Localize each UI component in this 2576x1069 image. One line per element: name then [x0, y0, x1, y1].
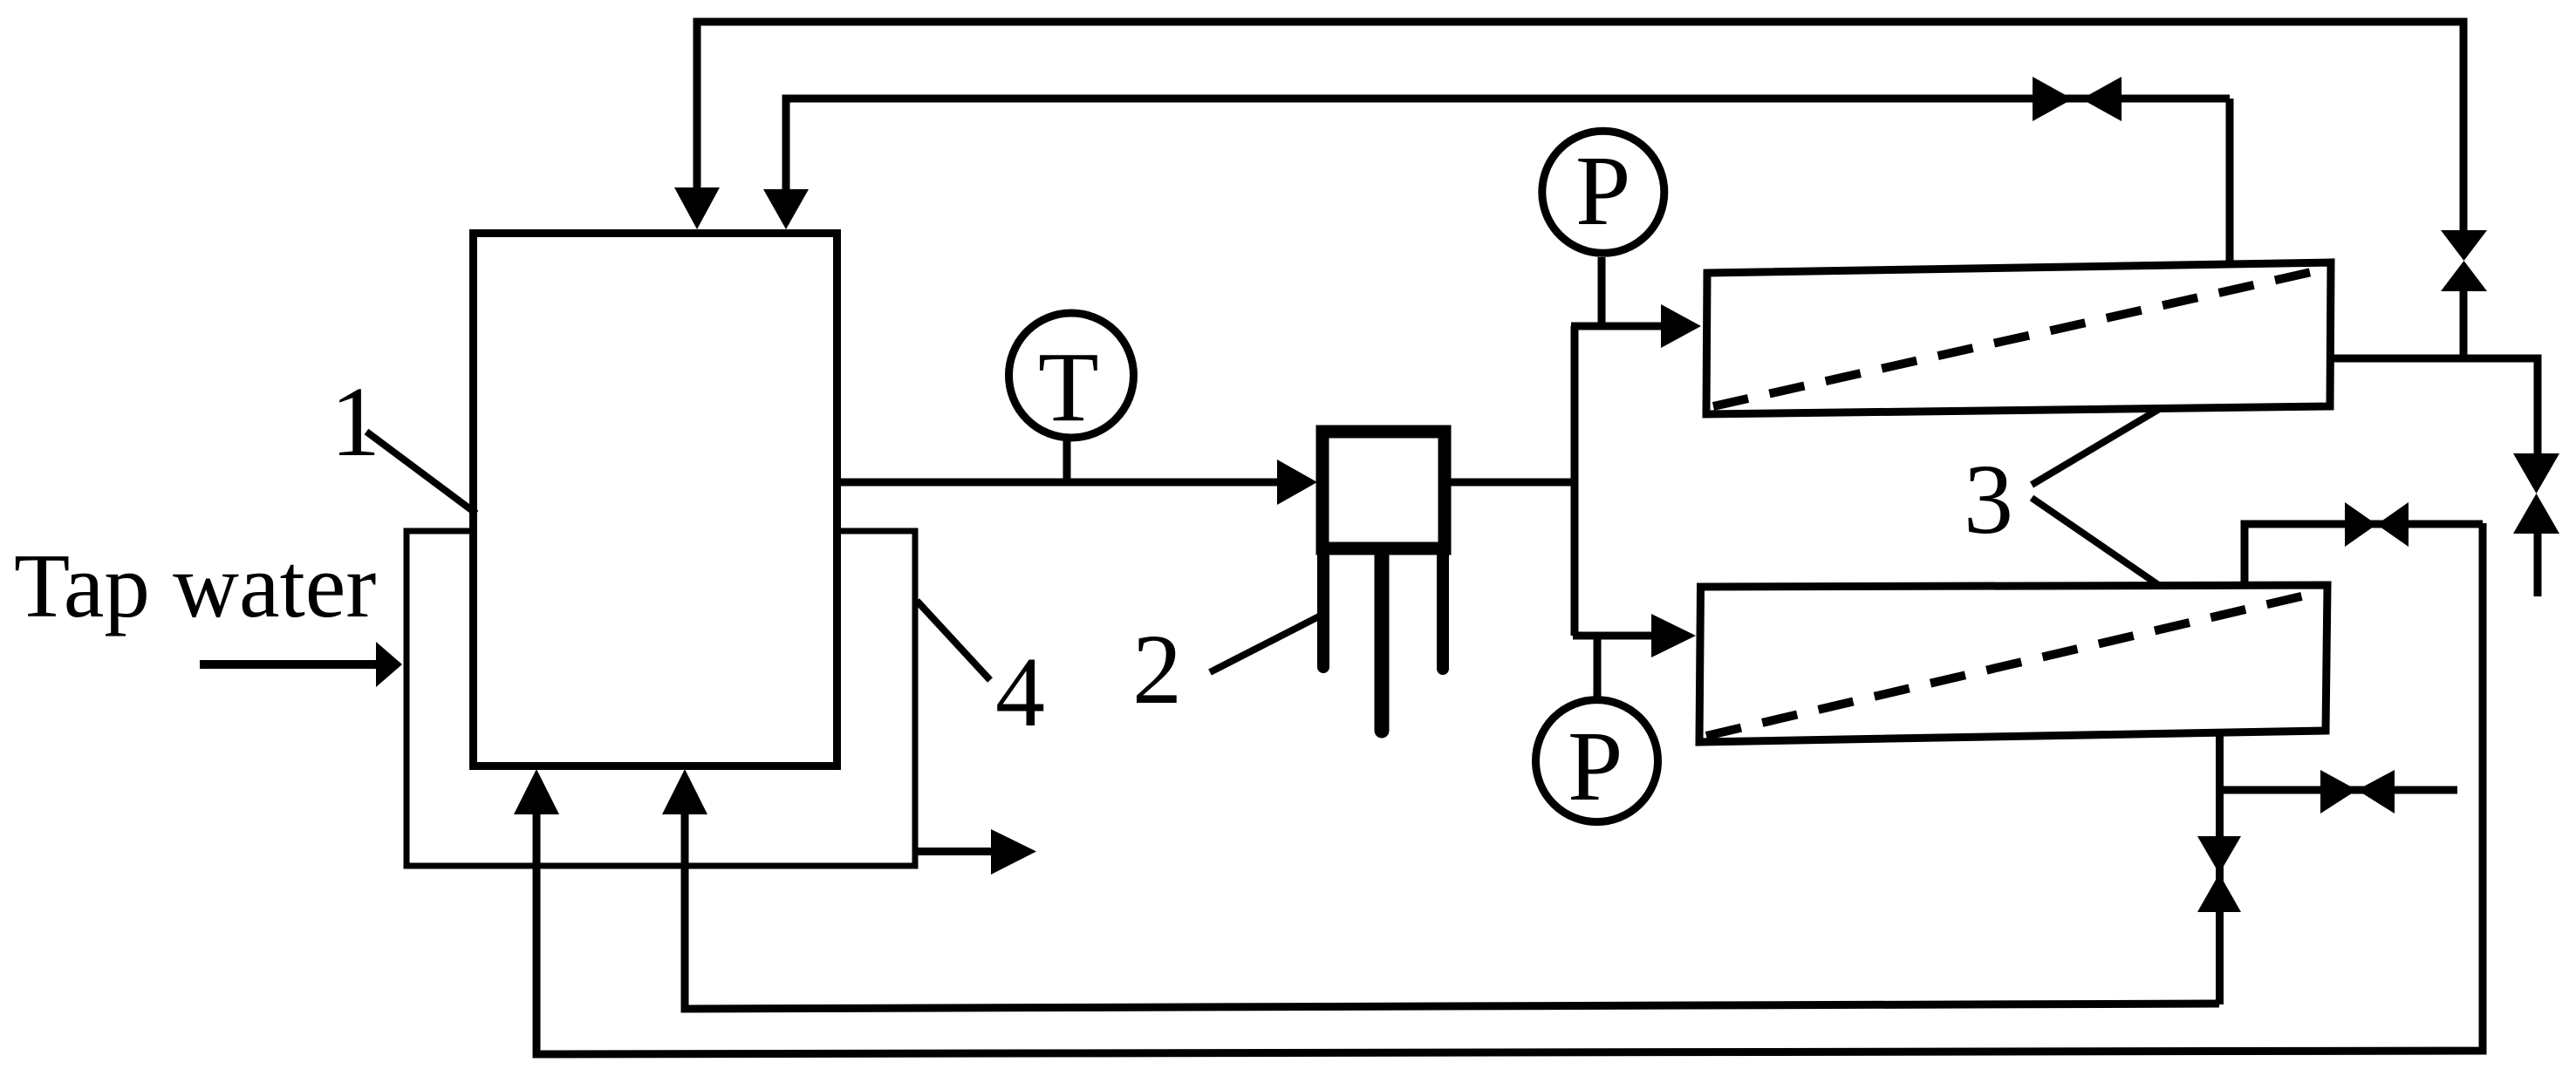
P gauge bottom stem — [1594, 636, 1602, 698]
P gauge top circle — [1542, 131, 1664, 253]
water jacket 4 (outer bath, open under tank) — [407, 531, 915, 866]
svg-text:Tap water: Tap water — [14, 534, 376, 637]
branch to bottom module 3b — [1573, 632, 1653, 640]
leader line to label 2 — [1210, 616, 1319, 672]
arrowhead: feed into module 3b — [1651, 614, 1696, 657]
valve V6 on bottom module drain return — [2197, 836, 2241, 874]
manifold vertical between module branches — [1571, 326, 1579, 636]
tank 1 (feed tank rectangle) — [474, 234, 837, 766]
arrowhead: feed into pump 2 — [1277, 460, 1317, 505]
T gauge circle — [1009, 313, 1134, 438]
arrowhead: jacket outlet — [991, 829, 1036, 875]
leader line to label 3 (lower, to module 3b) — [2032, 498, 2160, 586]
bottom module bottom port line down through valve V5 — [2216, 731, 2224, 1004]
top return line (from valve V2 riser to tank top arrow A) — [697, 22, 2463, 232]
pump 2 (piston pump symbol) — [1322, 432, 1445, 731]
dashed membrane diagonal in module 3b — [1706, 592, 2320, 736]
membrane module 3b (bottom, slightly tilted) — [1699, 585, 2327, 742]
valve V4 on concentrate return — [2345, 502, 2377, 547]
membrane module 3a (top, slightly tilted) — [1706, 262, 2331, 414]
tap water inlet arrow line — [200, 660, 378, 669]
main feed line tank to pump — [841, 479, 1279, 487]
arrowhead: tap water into jacket — [376, 642, 402, 687]
svg-text:P: P — [1568, 711, 1623, 821]
valve V2 on top return riser — [2441, 230, 2487, 261]
pump 2 outlet line — [1448, 479, 1578, 487]
arrowhead: feed into module 3a — [1661, 304, 1701, 348]
svg-text:3: 3 — [1964, 444, 2013, 555]
valve V1 on second return line — [2033, 77, 2073, 121]
wire: riser from V2 valve down to outlet junction — [2460, 289, 2468, 358]
jacket outlet line — [915, 848, 994, 855]
T gauge stem — [1063, 438, 1071, 482]
leader line to label 3 (upper, to module 3a) — [2032, 408, 2161, 485]
valve V5 on bottom module tee stub — [2320, 770, 2357, 814]
valve V3 on permeate drain stub — [2513, 453, 2559, 494]
arrowhead: return into tank bottom (left) — [514, 769, 559, 814]
second return line (from top module top port to tank top arrow B) — [786, 99, 2230, 211]
arrowhead: return into tank top (right) — [763, 189, 809, 229]
tee line through valve V6 to stub — [2220, 786, 2457, 794]
svg-text:T: T — [1038, 331, 1099, 442]
P gauge bottom circle — [1536, 700, 1658, 822]
arrowhead: return into tank top (left) — [674, 187, 720, 229]
leader line to label 4 — [917, 601, 990, 680]
arrowhead: return into tank bottom (right) — [662, 769, 707, 814]
dashed membrane diagonal in module 3a — [1713, 269, 2323, 406]
P gauge top stem — [1598, 257, 1606, 326]
svg-text:2: 2 — [1132, 614, 1182, 725]
second bottom return line — [685, 802, 2219, 1009]
wire: riser from line2 down to top module top port — [2226, 99, 2234, 266]
right main descending return — [536, 523, 2483, 1054]
top module permeate outlet line to right — [2330, 358, 2538, 455]
svg-text:1: 1 — [331, 366, 380, 477]
svg-text:4: 4 — [995, 637, 1045, 747]
svg-text:P: P — [1575, 135, 1630, 246]
branch to top module 3a — [1571, 323, 1663, 330]
leader line to label 1 — [366, 432, 476, 514]
wire: stub below valve V3 — [2534, 532, 2542, 596]
concentrate line from bottom module top port through valve V4 — [2245, 524, 2483, 582]
